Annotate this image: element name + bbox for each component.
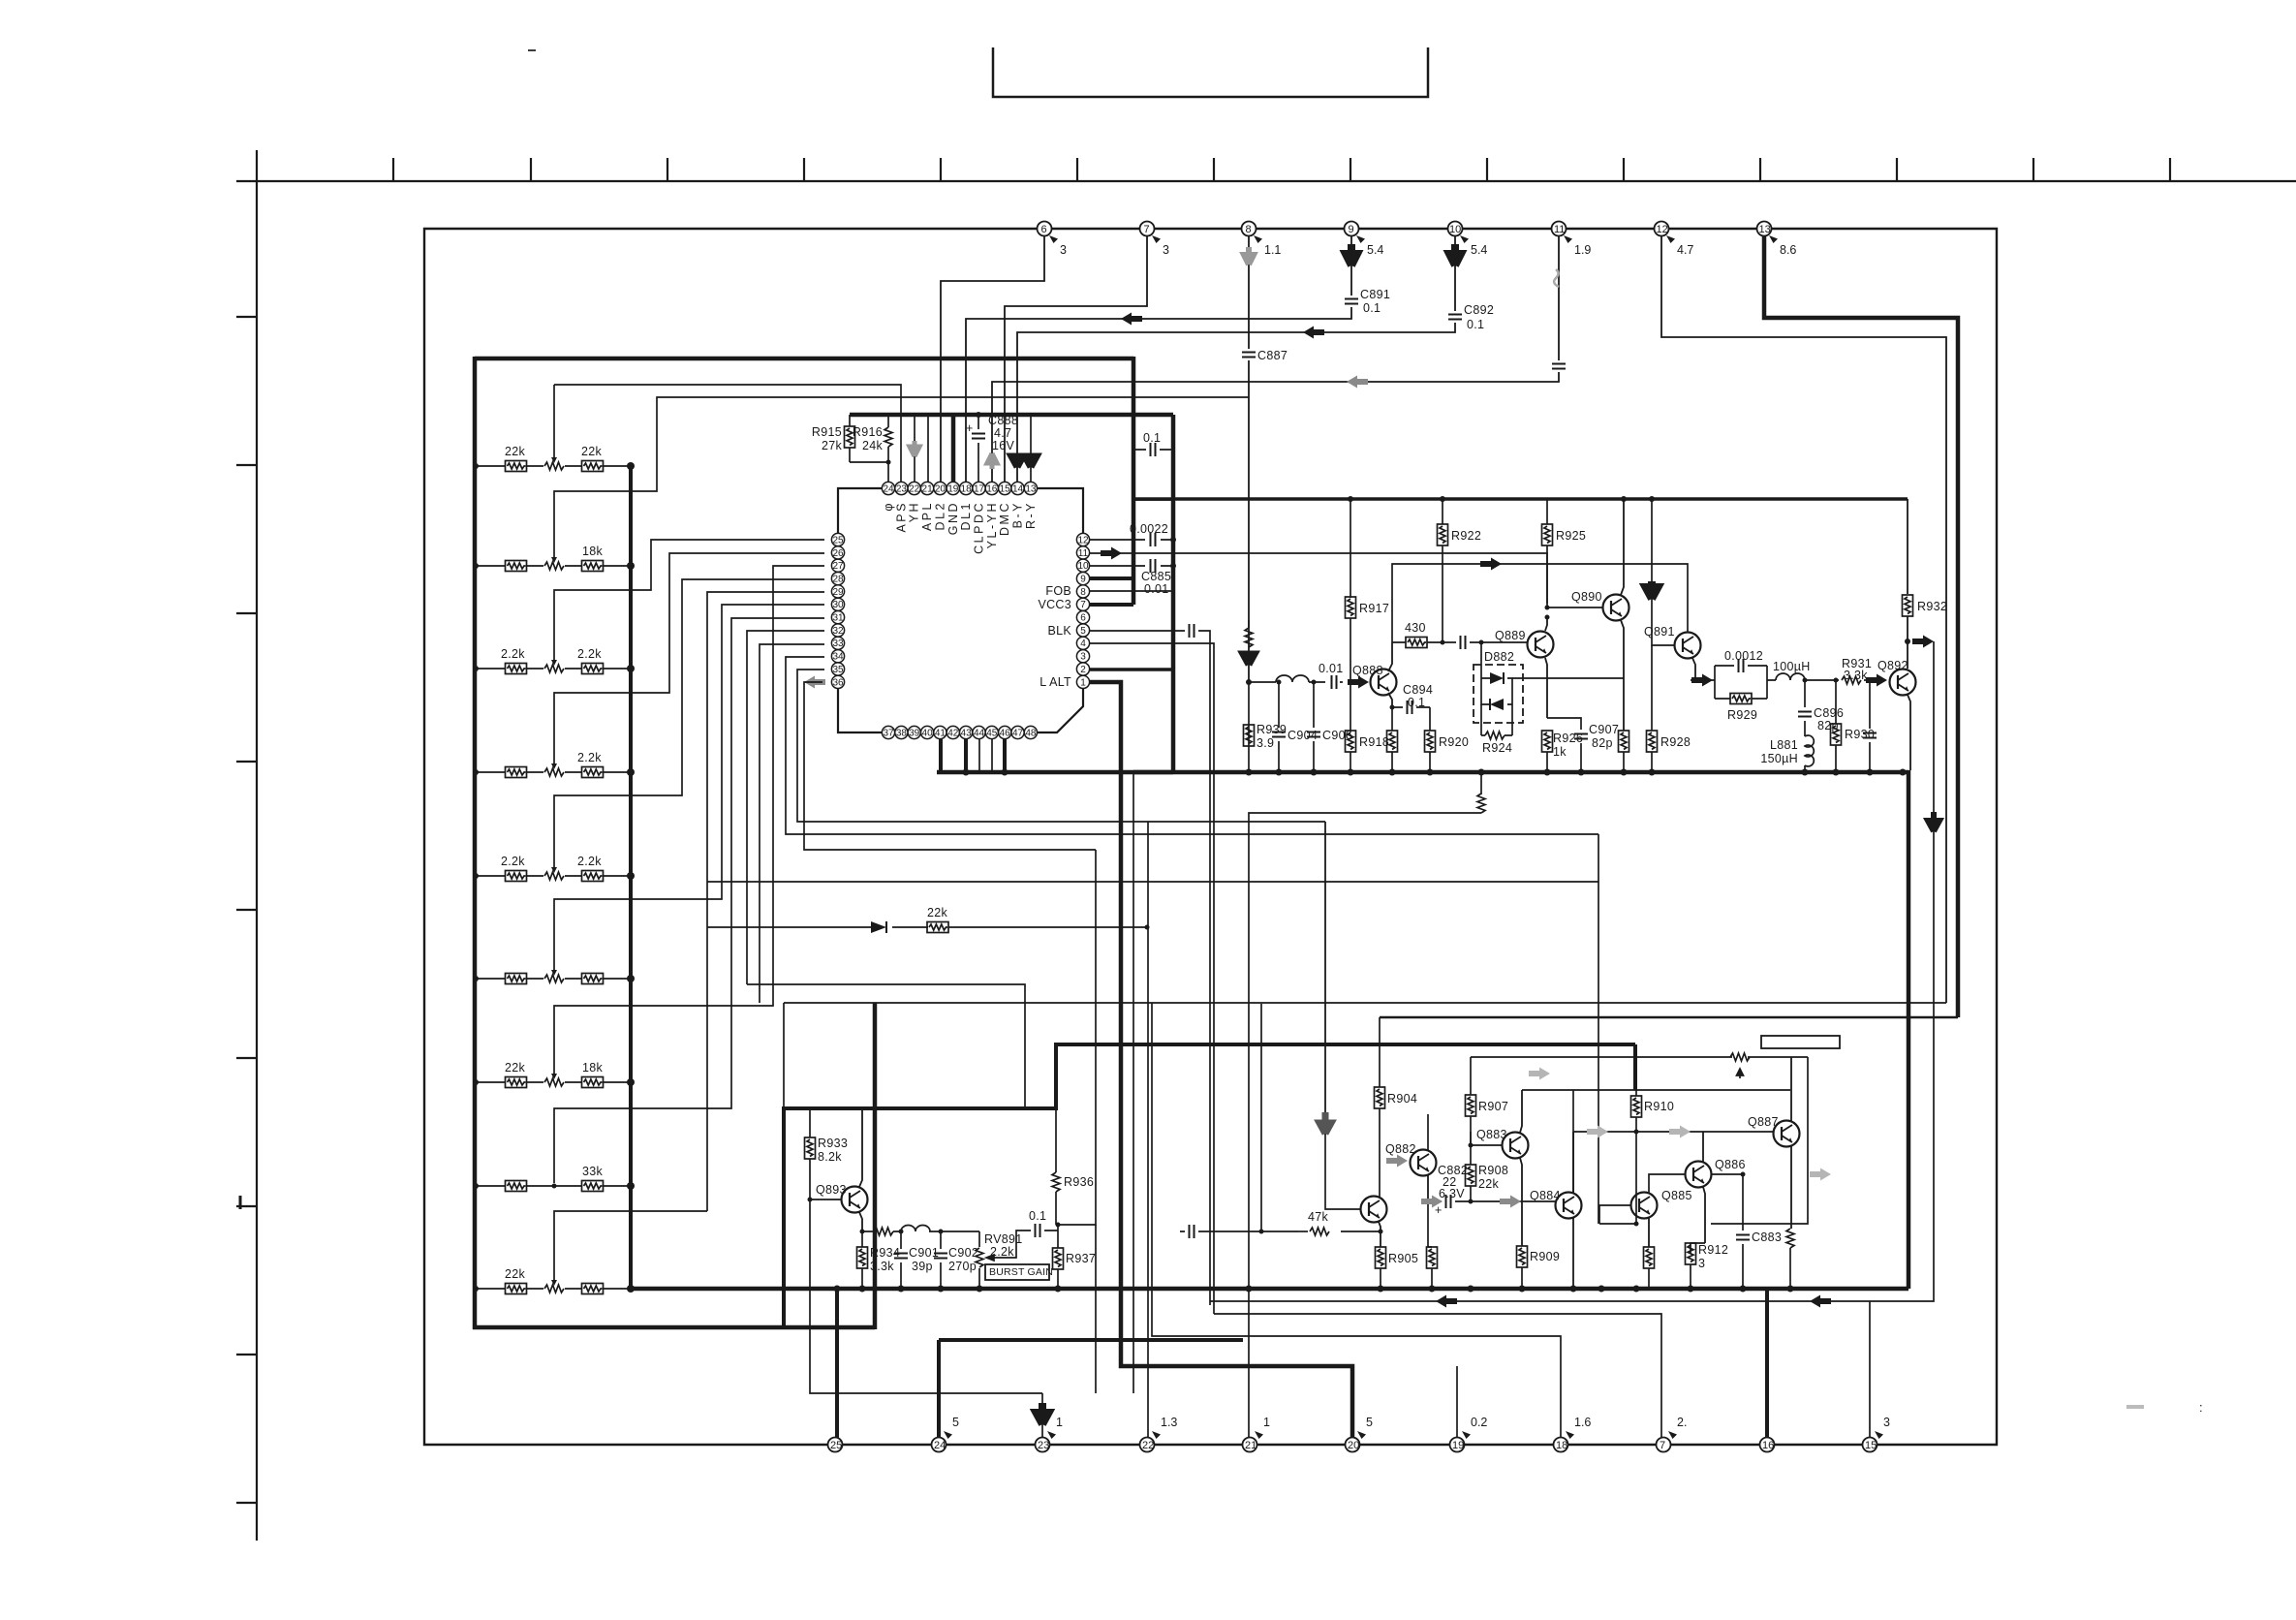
- svg-text:R909: R909: [1530, 1250, 1560, 1263]
- capacitor C892: [1448, 303, 1494, 331]
- Q892 emitter to bus: [1908, 695, 1910, 770]
- blank label box: [1761, 1036, 1840, 1048]
- gray down arrow at term8: [1244, 247, 1254, 265]
- svg-text:φ: φ: [882, 501, 895, 512]
- R908 22k: [1466, 1132, 1509, 1201]
- R905: [1376, 1247, 1419, 1289]
- svg-text:29: 29: [832, 587, 844, 598]
- 47k row: cap and resistor: [1180, 1231, 1381, 1232]
- gray down arrow pin22: [910, 441, 919, 456]
- R922: [1438, 499, 1482, 642]
- svg-text:FOB: FOB: [1045, 584, 1071, 598]
- svg-text:2.2k: 2.2k: [990, 1245, 1014, 1259]
- svg-text:VCC3: VCC3: [1038, 598, 1071, 611]
- IC pin 46: [999, 726, 1011, 738]
- bottom bus of right stage: [1133, 770, 1908, 775]
- svg-text:7: 7: [1660, 1440, 1665, 1451]
- terminal 7: [1657, 1416, 1688, 1452]
- IC pin 16: [985, 482, 998, 494]
- unlabeled resistor below Q885: [1644, 1247, 1655, 1289]
- svg-text:C883: C883: [1752, 1231, 1782, 1244]
- svg-text:Q891: Q891: [1644, 625, 1675, 639]
- wire y1016: [747, 644, 1025, 1108]
- svg-text:C888: C888: [988, 414, 1018, 427]
- wire IC pin26 to ladder row4 pot: [554, 553, 824, 765]
- svg-text:2.2k: 2.2k: [501, 647, 525, 661]
- svg-text:24: 24: [934, 1440, 946, 1451]
- IC pin 32: [831, 624, 844, 637]
- IC pin 28: [831, 573, 844, 585]
- top ruler line: [236, 180, 2296, 182]
- svg-text:37: 37: [883, 728, 894, 738]
- riser terminal 15: [1869, 1301, 1871, 1445]
- svg-text:C894: C894: [1403, 683, 1433, 697]
- left arrow on wire y1343: [1436, 1295, 1457, 1308]
- inner thick frame left: [473, 357, 478, 1329]
- svg-text:13: 13: [1025, 483, 1037, 494]
- below-bus resistor from node 1529: [1480, 772, 1482, 794]
- Q885 emitter: [1648, 1218, 1650, 1247]
- svg-text:10: 10: [1449, 224, 1461, 235]
- svg-text:R910: R910: [1644, 1100, 1674, 1113]
- svg-text:1: 1: [1263, 1416, 1270, 1429]
- svg-text:33k: 33k: [582, 1165, 604, 1178]
- small dash top: [528, 49, 536, 51]
- IC pin 4: [1076, 637, 1089, 649]
- inner thick frame right partial: [1132, 357, 1136, 605]
- svg-text:R933: R933: [818, 1137, 848, 1150]
- svg-text:C896: C896: [1814, 706, 1844, 720]
- black down arrow at term9: [1346, 244, 1357, 265]
- terminal 19: [1450, 1416, 1488, 1452]
- transistor Q890: [1571, 590, 1629, 621]
- gray left arrow at pin36: [804, 676, 825, 689]
- svg-text:34: 34: [832, 652, 844, 663]
- R931 3.3k: [1836, 657, 1872, 684]
- Q887 emitter down through resistor: [1790, 1146, 1792, 1229]
- svg-text:27: 27: [832, 561, 844, 572]
- R924: [1481, 704, 1512, 755]
- svg-text:C891: C891: [1360, 288, 1390, 301]
- svg-text:C892: C892: [1464, 303, 1494, 317]
- wire y1168 to Q887 base: [1573, 1131, 1773, 1133]
- IC pin 25: [831, 533, 844, 545]
- svg-text:6: 6: [1080, 613, 1086, 624]
- IC pin 11: [1076, 546, 1089, 559]
- black right arrow into Q888: [1348, 676, 1369, 689]
- wire x1289 from C887 down: [1248, 682, 1250, 772]
- svg-text:25: 25: [832, 535, 844, 545]
- svg-text:45: 45: [986, 728, 998, 738]
- svg-text:6: 6: [1041, 224, 1047, 235]
- svg-text:15: 15: [1865, 1440, 1877, 1451]
- resistor R939 3.9: [1244, 723, 1288, 750]
- svg-text:5.4: 5.4: [1471, 243, 1487, 257]
- thick pin41 drop: [939, 739, 943, 772]
- IC pin 21: [921, 482, 934, 494]
- svg-text:0.0012: 0.0012: [1724, 649, 1763, 663]
- svg-text:19: 19: [947, 483, 959, 494]
- svg-text:28: 28: [832, 575, 844, 585]
- svg-text:430: 430: [1405, 621, 1426, 635]
- transistor Q888: [1352, 664, 1397, 696]
- Q883 collector up: [1520, 1090, 1522, 1133]
- IC pin 38: [895, 726, 908, 738]
- ruler ticks: [393, 158, 2170, 181]
- transistor Q886: [1686, 1158, 1746, 1188]
- row2: resistor / pot / resistor 18k: [506, 561, 527, 572]
- IC pin 8: [1076, 585, 1089, 598]
- terminal 22: [1140, 1416, 1178, 1452]
- wire y1091 with trimmer: [1471, 1056, 1808, 1058]
- svg-text:1.9: 1.9: [1574, 243, 1591, 257]
- Q885 base wire: [1599, 1205, 1630, 1224]
- IC pin 24: [882, 482, 894, 494]
- svg-text:Q887: Q887: [1748, 1115, 1779, 1129]
- svg-text:YL-YH: YL-YH: [985, 501, 999, 548]
- svg-text:5: 5: [952, 1416, 959, 1429]
- svg-text:44: 44: [974, 728, 985, 738]
- svg-text:100µH: 100µH: [1773, 660, 1811, 673]
- transistor Q891: [1644, 625, 1701, 659]
- svg-text:48: 48: [1025, 728, 1037, 738]
- svg-text:17: 17: [974, 483, 985, 494]
- IC pin 26: [831, 546, 844, 559]
- black left arrow on C891 wire: [1121, 313, 1142, 326]
- svg-text:10: 10: [1077, 561, 1089, 572]
- wire IC pin27 to ladder row7 pot: [554, 566, 824, 1075]
- IC pin 43: [960, 726, 973, 738]
- svg-text:8.2k: 8.2k: [818, 1150, 842, 1164]
- terminal 10: [1448, 222, 1488, 258]
- svg-text:Q885: Q885: [1661, 1189, 1692, 1202]
- row4: resistor / pot / resistor 2.2k: [506, 767, 527, 778]
- title box (open top): [993, 47, 1428, 97]
- terminal 20: [1346, 1416, 1374, 1452]
- svg-text:0.1: 0.1: [1143, 431, 1161, 445]
- svg-text:R912: R912: [1698, 1243, 1728, 1257]
- transistor Q883: [1476, 1128, 1529, 1159]
- resistor R932: [1903, 595, 1948, 641]
- IC pin 45: [985, 726, 998, 738]
- svg-text:3: 3: [1883, 1416, 1890, 1429]
- svg-text:2: 2: [1080, 665, 1086, 675]
- svg-text:Q889: Q889: [1495, 629, 1526, 642]
- svg-text:9: 9: [1080, 575, 1086, 585]
- svg-text:20: 20: [1348, 1440, 1359, 1451]
- capacitor C891: [1345, 288, 1390, 315]
- R917: [1346, 499, 1390, 731]
- svg-text:22k: 22k: [505, 1061, 526, 1075]
- Q893 box thick top: [784, 1106, 1056, 1110]
- R937: [1053, 1225, 1097, 1289]
- svg-text:1.6: 1.6: [1574, 1416, 1591, 1429]
- transistor Q884: [1530, 1189, 1582, 1219]
- svg-text:7: 7: [1144, 224, 1150, 235]
- terminal 7: [1140, 222, 1170, 258]
- inductor L between: [1276, 675, 1309, 682]
- coupling wire y1263: [1599, 1132, 1636, 1224]
- svg-text:3: 3: [1698, 1257, 1705, 1270]
- Q883 base wire: [1471, 1144, 1502, 1146]
- capacitor C906: [1307, 682, 1352, 772]
- svg-text:38: 38: [896, 728, 908, 738]
- svg-text:R904: R904: [1387, 1092, 1417, 1106]
- row2 wires: [476, 565, 631, 567]
- IC pin 2: [1076, 663, 1089, 675]
- svg-text:3: 3: [1060, 243, 1067, 257]
- inner thick frame top: [475, 357, 1133, 361]
- svg-text:30: 30: [832, 600, 844, 610]
- left ticks: [236, 317, 257, 1503]
- ladder right bus: [629, 466, 633, 1289]
- IC pin 33: [831, 637, 844, 649]
- thick corner down from bus to lower bus: [1907, 770, 1911, 1289]
- svg-text:R907: R907: [1478, 1100, 1508, 1113]
- unlabeled resistor below Q882: [1427, 1201, 1438, 1289]
- wire IC pin34 long route to Q885 area: [786, 657, 1598, 834]
- svg-text:BURST GAIN: BURST GAIN: [989, 1266, 1053, 1278]
- left arrow 2 on wire y1343: [1810, 1295, 1831, 1308]
- thick riser from bus428 down right side: [1171, 415, 1176, 772]
- svg-text:R929: R929: [1727, 708, 1757, 722]
- svg-text:4: 4: [1080, 639, 1086, 649]
- row5 wires: [476, 875, 631, 877]
- black right arrow into Q892: [1866, 674, 1887, 687]
- svg-text:7: 7: [1080, 600, 1086, 610]
- svg-text:3: 3: [1163, 243, 1169, 257]
- thick GND pin wire: [951, 415, 956, 482]
- wire y704 to Q888 base: [1249, 681, 1343, 683]
- svg-text:Q886: Q886: [1715, 1158, 1746, 1171]
- svg-text:4.7: 4.7: [1677, 243, 1693, 257]
- C902 270p: [934, 1231, 978, 1289]
- svg-text:3: 3: [1080, 652, 1086, 663]
- terminal 11: [1552, 222, 1592, 258]
- svg-text:2.: 2.: [1677, 1416, 1687, 1429]
- Q888 collector up and wire y582: [1388, 642, 1392, 671]
- thin drops pins 44,45: [979, 739, 992, 772]
- R904: [1375, 1087, 1429, 1197]
- wire term9 down to C891: [1350, 236, 1352, 296]
- svg-text:R917: R917: [1359, 602, 1389, 615]
- row9 wires: [476, 1288, 631, 1290]
- IC pin 37: [882, 726, 894, 738]
- svg-text:47: 47: [1012, 728, 1024, 738]
- terminal 24: [932, 1416, 960, 1452]
- row3: resistor 2.2k / pot / resistor 2.2k: [501, 647, 527, 674]
- svg-text:42: 42: [947, 728, 959, 738]
- IC pin 44: [973, 726, 985, 738]
- svg-text:Q892: Q892: [1877, 659, 1908, 672]
- svg-text:R924: R924: [1482, 741, 1512, 755]
- svg-text:270p: 270p: [948, 1260, 977, 1273]
- black down arrow pin13: [1025, 453, 1037, 467]
- IC pin 17: [973, 482, 985, 494]
- IC pin 35: [831, 663, 844, 675]
- svg-text:40: 40: [922, 728, 934, 738]
- svg-text:0.01: 0.01: [1144, 582, 1169, 596]
- svg-text:9: 9: [1349, 224, 1354, 235]
- svg-text:Q893: Q893: [816, 1183, 847, 1197]
- black down arrow above terminal 23: [1037, 1403, 1049, 1424]
- Q884 collector up: [1572, 1132, 1574, 1193]
- L881 150uH coil: [1760, 735, 1814, 772]
- IC pin 19: [946, 482, 959, 494]
- wire pin9 thick: [1089, 576, 1133, 580]
- transistor Q892: [1877, 659, 1916, 696]
- riser terminal 23: [1041, 1393, 1043, 1445]
- wire pin12 with cap 0.0022: [1089, 522, 1176, 546]
- row9: resistor 22k / pot / resistor: [505, 1267, 527, 1294]
- svg-text:0.1: 0.1: [1029, 1209, 1046, 1223]
- terminal 23: [1036, 1416, 1064, 1452]
- terminal 8: [1242, 222, 1282, 258]
- transistor Q882: [1385, 1142, 1437, 1176]
- svg-text:0.1: 0.1: [1363, 301, 1381, 315]
- svg-text:R920: R920: [1439, 735, 1469, 749]
- IC pin 18: [960, 482, 973, 494]
- wiper wire to cap 0.1: [998, 1231, 1058, 1258]
- svg-text:1.3: 1.3: [1161, 1416, 1177, 1429]
- wire IC pin30 to ladder row6 pot: [554, 605, 824, 972]
- wire C891 bottom left with arrow: [966, 307, 1351, 482]
- gray right arrow into Q882: [1386, 1155, 1408, 1168]
- wire term7 down-left: [1005, 236, 1147, 482]
- small mark left: [239, 1196, 242, 1209]
- svg-text:R918: R918: [1359, 735, 1389, 749]
- zigzag resistor on x1289: [1245, 628, 1253, 647]
- row1: resistor 22k / pot / resistor 22k: [505, 445, 527, 472]
- R920: [1425, 707, 1470, 772]
- svg-text:YH: YH: [908, 501, 921, 522]
- Q890 collector to bus: [1621, 499, 1624, 595]
- terminal 15: [1863, 1416, 1891, 1452]
- svg-text:R-Y: R-Y: [1024, 501, 1038, 529]
- svg-text:R932: R932: [1917, 600, 1947, 613]
- gray marks: [1587, 1126, 1608, 1138]
- svg-text:11: 11: [1078, 548, 1089, 559]
- svg-text:43: 43: [961, 728, 973, 738]
- riser terminal 18 via 1379 wire: [1152, 1003, 1561, 1445]
- svg-text:2.2k: 2.2k: [501, 855, 525, 868]
- inductor 100uH: [1773, 660, 1811, 680]
- svg-text:19: 19: [1452, 1440, 1464, 1451]
- wire pin10 with cap: [1089, 559, 1176, 596]
- long horizontal y1035 from terminal12 riser: [784, 1002, 1946, 1004]
- transistor Q887: [1748, 1115, 1800, 1147]
- wire diode row y957: [707, 926, 1147, 928]
- svg-text:R939: R939: [1257, 723, 1287, 736]
- resistor R915: [812, 415, 855, 462]
- Q886 base from Q885 collector: [1649, 1174, 1685, 1193]
- svg-text:DL1: DL1: [959, 501, 973, 530]
- svg-text:+: +: [1435, 1203, 1442, 1217]
- Q886 right node: [1711, 1173, 1743, 1175]
- IC body outline: [838, 488, 1083, 732]
- ladder junction dots: [473, 462, 635, 1293]
- svg-text:CLPDC: CLPDC: [973, 501, 986, 554]
- svg-text:3.3k: 3.3k: [870, 1260, 894, 1273]
- wire from diode node right: [1512, 677, 1624, 679]
- thick riser terminal 24 with bus: [937, 1340, 941, 1445]
- svg-text:2.2k: 2.2k: [577, 855, 602, 868]
- row6 wires: [476, 978, 631, 980]
- wire y516 from inner edge right: [1133, 499, 1173, 501]
- IC pin 36: [831, 675, 844, 688]
- svg-text:C902: C902: [948, 1246, 978, 1260]
- terminal 6: [1038, 222, 1068, 258]
- IC pin 20: [934, 482, 946, 494]
- svg-text:C907: C907: [1589, 723, 1619, 736]
- IC pin 39: [908, 726, 920, 738]
- IC pin 30: [831, 598, 844, 610]
- black right arrow into loop: [1691, 674, 1713, 687]
- transistor Q885: [1631, 1189, 1692, 1219]
- svg-text:26: 26: [832, 548, 844, 559]
- svg-text:12: 12: [1657, 224, 1668, 235]
- thick riser terminal 16: [1765, 1289, 1769, 1445]
- terminal 9: [1345, 222, 1384, 258]
- svg-text:8.6: 8.6: [1780, 243, 1796, 257]
- capacitor C887: [1242, 349, 1288, 362]
- emitter row: resistor, inductor: [862, 1231, 979, 1232]
- gray up arrow pin16: [987, 453, 997, 469]
- IC pin 42: [946, 726, 959, 738]
- wire pin5 BLK with cap at 1247: [1089, 624, 1210, 1305]
- svg-text:5.4: 5.4: [1367, 243, 1383, 257]
- svg-text:22k: 22k: [927, 906, 948, 919]
- svg-text:33: 33: [832, 639, 844, 649]
- svg-text:16: 16: [1762, 1440, 1774, 1451]
- D882 dashed box: [1474, 665, 1523, 723]
- Q886 collector up: [1702, 1132, 1704, 1162]
- svg-text:22k: 22k: [505, 1267, 526, 1281]
- R928: [1647, 645, 1691, 772]
- wire Q892 collector: [1907, 641, 1908, 669]
- svg-text:20: 20: [935, 483, 946, 494]
- IC pin 12: [1076, 533, 1089, 545]
- R907: [1466, 1057, 1509, 1145]
- svg-text:R905: R905: [1388, 1252, 1418, 1265]
- wire pin2 thick: [1089, 668, 1173, 671]
- Q888 emitter down: [1388, 693, 1392, 707]
- IC pin 6: [1076, 611, 1089, 624]
- svg-text:1: 1: [1080, 677, 1086, 688]
- svg-text:82p: 82p: [1592, 736, 1613, 750]
- Q890 base wire: [1547, 607, 1602, 608]
- gray arrows on C882 row: [1421, 1196, 1443, 1208]
- svg-text:Q890: Q890: [1571, 590, 1602, 604]
- C896 82p: [1798, 680, 1844, 736]
- svg-text:23: 23: [896, 483, 908, 494]
- svg-text:R928: R928: [1660, 735, 1691, 749]
- IC pin 15: [999, 482, 1011, 494]
- wire y663 with 430 resistor: [1392, 641, 1527, 643]
- row8: resistor / junction / resistor 33k: [506, 1181, 527, 1192]
- wire C892 bottom left with arrow: [1017, 323, 1455, 482]
- svg-text:21: 21: [922, 483, 934, 494]
- svg-text:22k: 22k: [1478, 1177, 1500, 1191]
- bus end corner down to R932: [1907, 499, 1908, 594]
- svg-text:D882: D882: [1484, 650, 1514, 664]
- svg-text:Q884: Q884: [1530, 1189, 1561, 1202]
- svg-text:25: 25: [830, 1440, 842, 1451]
- wire IC pin31 to ladder row8 pot: [554, 618, 824, 1183]
- wire term13 thick down right down: [1764, 236, 1958, 1017]
- 22k resistor on row: [927, 906, 948, 933]
- row7: resistor 22k / pot / resistor 18k: [505, 1061, 527, 1088]
